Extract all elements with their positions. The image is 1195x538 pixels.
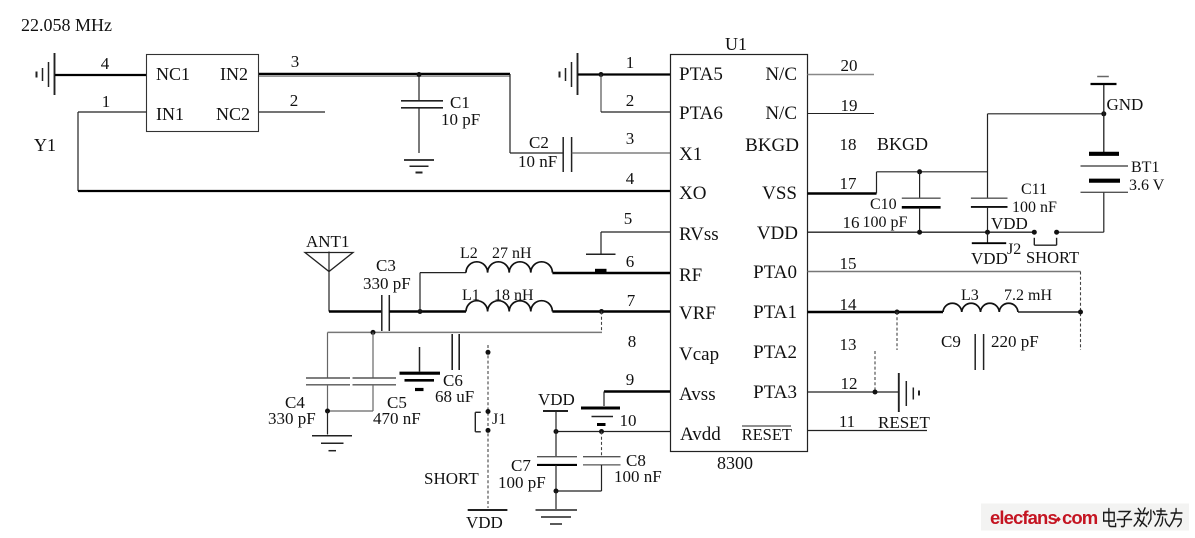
svg-text:SHORT: SHORT <box>424 469 479 488</box>
svg-text:XO: XO <box>679 183 706 204</box>
wire chip pin 14 PTA1 (bold) <box>808 311 944 313</box>
svg-text:12: 12 <box>841 374 858 393</box>
wire chip pin 16 VDD rail <box>808 231 1035 233</box>
wire crystal pin 4 to ground <box>55 74 146 76</box>
ground under C1 <box>404 159 434 161</box>
wire chip pin 9 Avss (bold) <box>604 390 670 392</box>
svg-text:330 pF: 330 pF <box>268 409 316 428</box>
jumper J1 dashed column <box>487 345 489 508</box>
svg-text:3: 3 <box>626 129 635 148</box>
svg-text:PTA0: PTA0 <box>753 262 797 283</box>
svg-text:VSS: VSS <box>762 183 797 204</box>
svg-text:10 nF: 10 nF <box>518 152 557 171</box>
wire L2 to chip pin 6 RF (bold) <box>552 272 670 274</box>
svg-text:9: 9 <box>626 370 635 389</box>
jumper J2 left pin <box>1032 230 1037 235</box>
wire chip pin 15 PTA0 (gray) <box>808 271 1081 273</box>
svg-text:RESET: RESET <box>878 413 931 432</box>
svg-text:ANT1: ANT1 <box>306 232 349 251</box>
svg-text:PTA5: PTA5 <box>679 64 723 85</box>
power symbol VDD under rail <box>987 232 989 243</box>
svg-text:SHORT: SHORT <box>1026 248 1079 267</box>
wire lower gray bus <box>328 331 603 333</box>
svg-text:2: 2 <box>290 91 299 110</box>
svg-text:U1: U1 <box>725 34 747 54</box>
svg-text:PTA6: PTA6 <box>679 103 723 124</box>
wire chip pin 17 VSS (bold) with step up <box>808 192 877 194</box>
svg-text:VDD: VDD <box>757 223 798 244</box>
wire chip pin 10 Avdd <box>556 431 670 433</box>
ground for PTA3 (rotated, bars facing right) <box>898 373 900 412</box>
wire ground to chip pin 1 PTA5 (bold) <box>578 73 670 75</box>
svg-text:IN2: IN2 <box>220 64 248 84</box>
wire chip pin 5 RVss <box>601 231 670 233</box>
jumper J1 pin 1 <box>486 409 491 414</box>
svg-text:NC2: NC2 <box>216 104 250 124</box>
svg-text:J1: J1 <box>492 411 506 428</box>
wire joining C7 and C8 bottoms <box>556 490 602 492</box>
wire C3 to RF junction (bold) <box>389 310 466 312</box>
battery BT1 <box>1089 152 1119 156</box>
inductor L1 <box>466 301 552 312</box>
svg-text:elecfans: elecfans <box>990 507 1057 528</box>
wire chip pin 19 N/C stub <box>808 113 875 115</box>
junction node RF/VRF split <box>418 309 423 314</box>
svg-text:BKGD: BKGD <box>745 135 799 156</box>
wire XO net (Y1 pin1 to chip pin 4, bold) <box>78 190 670 192</box>
junction node on PTA5 wire <box>599 72 604 77</box>
capacitor C5 <box>372 332 374 377</box>
svg-text:PTA3: PTA3 <box>753 382 797 403</box>
svg-text:C10: C10 <box>870 196 897 213</box>
svg-text:RVss: RVss <box>679 224 719 245</box>
power symbol VDD under J1 <box>468 509 508 511</box>
wire branch up to L2 row <box>419 273 421 312</box>
capacitor C10 <box>919 172 921 198</box>
ground GND symbol (small inverted) <box>1097 76 1109 78</box>
svg-text:C9: C9 <box>941 332 961 351</box>
jumper J2 right pin <box>1054 230 1059 235</box>
wire PTA0 branch down (dashed scan artifact) <box>1080 272 1082 351</box>
junction node VDD rail at C10 <box>917 230 922 235</box>
svg-text:100 pF: 100 pF <box>863 214 908 231</box>
svg-text:GND: GND <box>1107 95 1144 114</box>
wire to chip pin 2 PTA6 <box>601 111 670 113</box>
svg-text:22.058 MHz: 22.058 MHz <box>21 15 112 35</box>
svg-text:16: 16 <box>843 213 860 232</box>
svg-text:Avss: Avss <box>679 384 716 405</box>
svg-text:L3: L3 <box>961 287 979 304</box>
jumper J2 shunt bracket <box>1033 238 1035 245</box>
svg-text:X1: X1 <box>679 144 702 165</box>
svg-text:470 nF: 470 nF <box>373 409 421 428</box>
junction node at GND column <box>1101 111 1106 116</box>
svg-text:20: 20 <box>841 56 858 75</box>
inductor L3 <box>943 303 1018 312</box>
jumper J1 bracket <box>474 412 476 432</box>
wire chip pin 12 PTA3 <box>808 391 899 393</box>
junction node Avdd at C8 <box>599 429 604 434</box>
wire chip pin 20 N/C stub (gray) <box>808 74 875 76</box>
ground for Avss <box>603 392 605 407</box>
wire crystal pin 3 to C1/C2 node (bold with scan halo) <box>259 73 510 75</box>
svg-text:VDD: VDD <box>538 390 575 409</box>
capacitor C7 <box>555 432 557 457</box>
svg-text:Avdd: Avdd <box>680 424 721 445</box>
ground stub for RVss <box>600 232 602 254</box>
jumper J1 pin 2 <box>486 428 491 433</box>
capacitor C6 <box>451 334 453 370</box>
ground under C7/C8 <box>555 491 557 509</box>
svg-text:13: 13 <box>840 335 857 354</box>
wire C2 to chip pin X1 <box>572 152 670 154</box>
svg-text:PTA1: PTA1 <box>753 302 797 323</box>
svg-text:7: 7 <box>627 291 636 310</box>
svg-text:220 pF: 220 pF <box>991 332 1039 351</box>
logo background <box>981 504 1189 531</box>
svg-text:68 uF: 68 uF <box>435 387 474 406</box>
svg-text:100 nF: 100 nF <box>614 467 662 486</box>
svg-text:100 pF: 100 pF <box>498 473 546 492</box>
wire antenna to C3 (bold) <box>329 310 382 312</box>
svg-text:7.2 mH: 7.2 mH <box>1004 287 1052 304</box>
svg-text:NC1: NC1 <box>156 64 190 84</box>
svg-text:8300: 8300 <box>717 453 753 473</box>
svg-text:3: 3 <box>291 52 300 71</box>
junction node right of L3 <box>1078 310 1083 315</box>
wire PTA1 branch down (dashed scan artifact) <box>896 312 898 350</box>
inductor L2 <box>466 262 552 273</box>
capacitor C4 <box>327 332 329 377</box>
junction node on PTA3 <box>873 390 878 395</box>
svg-text:4: 4 <box>626 169 635 188</box>
jumper J1 top node <box>486 350 491 355</box>
svg-text:Y1: Y1 <box>34 135 56 155</box>
wire chip pin 13 PTA2 stub down (dashed) <box>874 351 876 392</box>
wire VSS net top to GND column <box>988 113 1104 115</box>
svg-text:N/C: N/C <box>765 103 797 124</box>
wire joining C4 and C5 bottoms <box>328 410 374 412</box>
wire branch down to PTA6 <box>600 75 602 113</box>
svg-text:17: 17 <box>840 174 858 193</box>
svg-text:N/C: N/C <box>765 64 797 85</box>
logo chinese characters 电子发烧友 (drawn strokes) <box>1104 508 1182 527</box>
svg-text:BT1: BT1 <box>1131 159 1159 176</box>
svg-text:C11: C11 <box>1021 181 1047 198</box>
svg-text:5: 5 <box>624 209 633 228</box>
wire L1 to chip pin 7 VRF (bold) <box>552 310 670 312</box>
wire crystal pin 1 left then down to XO net <box>78 111 147 113</box>
svg-text:Vcap: Vcap <box>679 344 719 365</box>
svg-text:1: 1 <box>626 53 635 72</box>
svg-text:com: com <box>1062 507 1098 528</box>
ground bold stub near C6 <box>419 347 421 372</box>
ground for chip pin 1 (rotated, bars facing left) <box>577 53 579 95</box>
wire from pin3 net down to C2 <box>509 74 511 153</box>
capacitor C1 <box>418 74 420 100</box>
junction node above C10 <box>917 169 922 174</box>
svg-text:8: 8 <box>628 332 637 351</box>
svg-text:VDD: VDD <box>971 249 1008 268</box>
svg-text:VDD: VDD <box>991 214 1028 233</box>
svg-text:10 pF: 10 pF <box>441 110 480 129</box>
svg-text:4: 4 <box>101 54 110 73</box>
ground for crystal pin 4 (rotated, bars facing left) <box>54 53 56 95</box>
svg-text:BKGD: BKGD <box>877 134 928 154</box>
capacitor C3 <box>381 295 383 331</box>
ground under C4/C5 <box>327 411 329 435</box>
svg-text:L1: L1 <box>462 287 480 304</box>
svg-text:3.6 V: 3.6 V <box>1129 177 1165 194</box>
junction node at C1 tap <box>417 72 422 77</box>
svg-text:1: 1 <box>102 92 111 111</box>
svg-text:J2: J2 <box>1007 241 1021 258</box>
junction node VDD rail at C11 <box>985 230 990 235</box>
wire battery minus to VDD rail <box>1103 193 1105 233</box>
wire crystal pin 2 stub <box>259 111 325 113</box>
svg-text:RF: RF <box>679 265 702 286</box>
svg-text:L2: L2 <box>460 245 478 262</box>
junction node on gray bus at C5 <box>371 330 376 335</box>
svg-text:VDD: VDD <box>466 513 503 532</box>
svg-text:19: 19 <box>841 96 858 115</box>
wire GND down to battery <box>1103 85 1105 152</box>
wire VSS net horizontal to C11 <box>877 171 988 173</box>
svg-text:11: 11 <box>839 412 855 431</box>
wire L3 to right node <box>1018 311 1081 313</box>
svg-text:PTA2: PTA2 <box>753 342 797 363</box>
svg-text:10: 10 <box>620 411 637 430</box>
svg-text:VRF: VRF <box>679 303 716 324</box>
capacitor C8 <box>601 432 603 457</box>
capacitor C2 <box>562 137 564 172</box>
svg-text:330 pF: 330 pF <box>363 274 411 293</box>
wire chip pin 11 RESET <box>808 430 928 432</box>
capacitor C9 <box>974 334 976 370</box>
junction node on VRF <box>599 309 604 314</box>
wire VRF branch down (dashed scan artifact) <box>601 312 603 333</box>
svg-text:C3: C3 <box>376 256 396 275</box>
op-amp style IC U1 body (MCU 8300) <box>671 55 808 452</box>
svg-text:18: 18 <box>840 135 857 154</box>
svg-text:2: 2 <box>626 91 635 110</box>
svg-text:18 nH: 18 nH <box>494 287 534 304</box>
svg-text:15: 15 <box>840 254 857 273</box>
svg-text:C2: C2 <box>529 133 549 152</box>
svg-text:6: 6 <box>626 252 635 271</box>
antenna ANT1 symbol <box>305 253 353 272</box>
junction node on PTA1 <box>895 310 900 315</box>
svg-text:RESET: RESET <box>742 425 792 444</box>
junction node Avdd at C7 <box>554 429 559 434</box>
crystal Y1 body <box>147 55 259 132</box>
svg-text:IN1: IN1 <box>156 104 184 124</box>
svg-text:27 nH: 27 nH <box>492 245 532 262</box>
capacitor C11 <box>987 114 989 198</box>
